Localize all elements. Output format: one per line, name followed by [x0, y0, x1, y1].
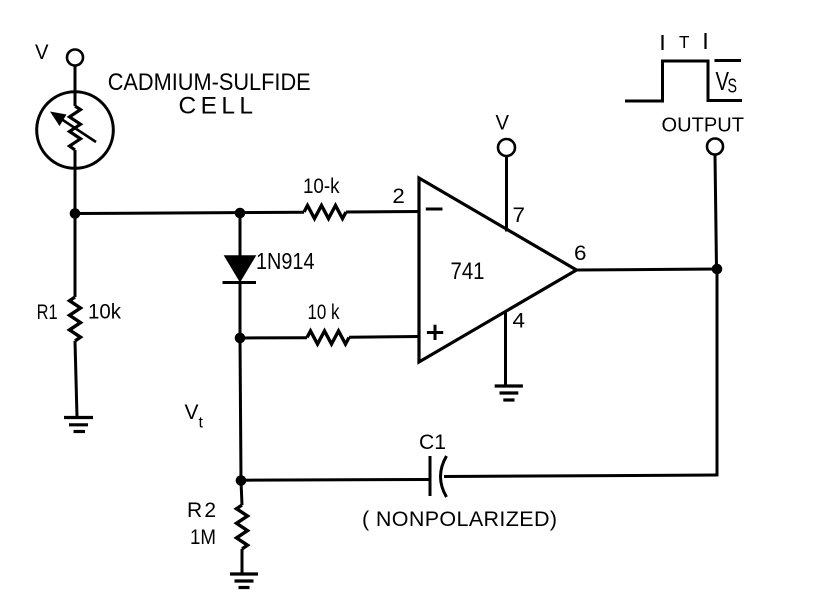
output waveform tick left — [661, 35, 663, 50]
wire output node to OUTPUT terminal — [715, 155, 717, 269]
wire node B to node C (Vt rail) — [240, 338, 241, 481]
output waveform pulse — [625, 61, 742, 101]
svg-text:R2: R2 — [187, 499, 216, 522]
terminal V (top-left supply) — [67, 50, 83, 66]
svg-text:2: 2 — [392, 185, 404, 208]
wire node B1 to diode D1 — [239, 213, 242, 256]
wire resistor 10-k to op-amp pin 2 — [346, 210, 419, 214]
capacitor C1 left plate — [429, 456, 432, 496]
photocell arrowhead — [50, 112, 67, 127]
wire R1 to ground — [75, 341, 77, 417]
svg-text:S: S — [728, 76, 738, 98]
svg-text:V: V — [35, 41, 49, 64]
svg-text:10 k: 10 k — [308, 301, 340, 324]
capacitor C1 right curved plate — [441, 456, 447, 497]
svg-text:CELL: CELL — [179, 93, 254, 120]
wire node A to resistor 10-k — [75, 212, 304, 213]
wire R2 to ground — [241, 549, 244, 573]
op-amp U1 minus input symbol — [426, 208, 443, 211]
svg-text:t: t — [199, 415, 204, 432]
output waveform Vs reference line — [715, 59, 742, 62]
svg-text:T: T — [679, 32, 690, 52]
photocell CdS cell circle — [37, 92, 114, 169]
ground (R2) — [230, 574, 258, 588]
photocell internal wire top — [74, 92, 77, 106]
resistor 10 k (non-inverting input) zigzag — [307, 331, 349, 344]
resistor 10-k (inverting input) zigzag — [304, 206, 346, 219]
svg-text:741: 741 — [451, 258, 485, 285]
node C junction dot — [236, 475, 247, 486]
resistor R2 zigzag — [237, 505, 248, 549]
wire op-amp pin 4 to ground — [504, 311, 507, 386]
photocell resistive zigzag — [70, 106, 81, 150]
node B1 junction dot (diode anode node) — [235, 208, 246, 219]
svg-text:6: 6 — [574, 242, 587, 265]
terminal OUTPUT — [707, 139, 723, 155]
output waveform tick right — [704, 33, 706, 49]
terminal V (op-amp supply) — [498, 139, 515, 156]
wire node B to resistor 10 k — [240, 336, 307, 339]
svg-text:4: 4 — [513, 310, 526, 333]
resistor R1 wire from node A — [74, 214, 77, 298]
node B junction dot — [235, 333, 246, 344]
svg-text:7: 7 — [513, 204, 526, 227]
ground (op-amp pin 4) — [495, 386, 523, 400]
photocell arrow shaft — [56, 116, 96, 143]
output node junction dot — [712, 264, 723, 275]
wire op-amp pin 7 to V terminal — [505, 156, 508, 232]
wire resistor 10 k to op-amp pin 3 — [349, 335, 419, 339]
svg-text:V: V — [185, 401, 199, 424]
diode D1 cathode bar — [223, 281, 257, 284]
wire op-amp pin 6 to output node — [577, 269, 718, 270]
svg-text:1N914: 1N914 — [256, 248, 315, 274]
op-amp U1 plus input symbol — [427, 325, 443, 340]
wire V terminal to photocell — [74, 66, 77, 96]
svg-text:10k: 10k — [88, 301, 121, 324]
wire diode D1 to node B — [239, 283, 242, 338]
wire capacitor C1 to feedback corner — [444, 475, 717, 477]
svg-text:R1: R1 — [37, 301, 58, 324]
ground (R1) — [64, 418, 93, 432]
wire photocell to node A — [74, 150, 77, 214]
op-amp U1 741 triangle — [419, 178, 577, 362]
svg-text:V: V — [496, 112, 510, 135]
resistor R1 zigzag — [70, 297, 81, 341]
svg-text:( NONPOLARIZED): ( NONPOLARIZED) — [362, 507, 557, 531]
svg-text:OUTPUT: OUTPUT — [662, 114, 745, 137]
svg-text:10-k: 10-k — [303, 175, 340, 198]
node A junction dot — [70, 208, 81, 219]
resistor R2 wire from node C — [241, 481, 242, 505]
svg-text:C1: C1 — [419, 431, 446, 454]
svg-text:1M: 1M — [190, 526, 216, 549]
diode D1 1N914 triangle — [225, 256, 255, 281]
wire feedback vertical to output node — [716, 269, 719, 476]
wire node C to capacitor C1 — [241, 478, 429, 482]
